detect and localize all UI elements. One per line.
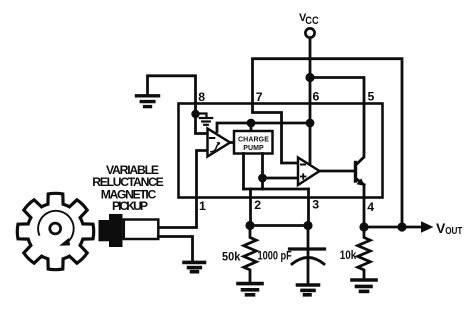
wire charge pump supply tap <box>250 123 253 131</box>
comparator U1A input stage <box>208 129 231 157</box>
node VOUT label <box>436 220 463 237</box>
wire emitter to pin 4 <box>363 185 366 227</box>
svg-text:CHARGE: CHARGE <box>238 136 269 143</box>
arrow VOUT <box>421 221 434 232</box>
wire pin 3 lead <box>307 189 310 226</box>
ground G3 under R1 <box>238 284 262 295</box>
wire charge pump right output <box>261 154 264 190</box>
gear wheel <box>17 193 93 269</box>
wire top rail pin7 to VOUT rail <box>253 59 403 227</box>
wire VOUT <box>364 226 421 229</box>
ground G1 top-left <box>137 96 159 107</box>
label variable reluctance magnetic pickup <box>92 163 164 213</box>
svg-text:OUT: OUT <box>445 225 463 237</box>
node dot pin6 rail <box>306 119 315 128</box>
svg-text:CC: CC <box>305 15 318 27</box>
transistor Q1 <box>354 163 357 182</box>
wire internal bottom rail <box>244 188 309 191</box>
node dot pump output to op-amp <box>258 174 267 183</box>
wire pin8 internal to comparator inverting input <box>196 104 208 134</box>
node dot pin 3 <box>303 221 312 230</box>
svg-text:PUMP: PUMP <box>243 145 264 152</box>
wire pin1 to comparator non-inverting input <box>160 151 208 228</box>
svg-text:5: 5 <box>368 90 375 104</box>
ground internal reference <box>196 114 213 125</box>
resistor R1 50k <box>244 226 257 282</box>
charge pump block U1B <box>234 131 273 154</box>
svg-text:7: 7 <box>256 90 263 104</box>
wire comparator output to charge pump <box>230 141 234 144</box>
svg-text:10k: 10k <box>340 248 357 262</box>
node dot VOUT rail <box>397 222 406 231</box>
wire pickup to ground <box>158 237 192 261</box>
svg-text:6: 6 <box>313 90 320 104</box>
svg-text:1: 1 <box>199 199 206 213</box>
svg-text:1000 pF: 1000 pF <box>258 248 292 262</box>
capacitor C1 <box>307 226 310 284</box>
svg-text:2: 2 <box>254 198 261 212</box>
VCC terminal circle <box>305 28 314 37</box>
svg-text:50k: 50k <box>222 250 241 264</box>
ground G5 under R2 <box>352 280 376 291</box>
wire pump output to op-amp non-inverting input <box>263 177 299 180</box>
wire VCC down to junction <box>309 38 312 78</box>
hysteresis symbol inside comparator <box>211 142 220 152</box>
node junction VCC dot <box>305 73 314 82</box>
node dot pin 4 / VOUT <box>359 222 368 231</box>
wire pin6 VCC down to op-amp supply <box>309 78 312 166</box>
node pin8 internal dot <box>191 110 199 118</box>
gear hub hole <box>50 223 61 234</box>
wire op-amp output to transistor base <box>320 170 355 173</box>
node VCC label <box>299 12 319 27</box>
wire pin8 to ground <box>148 76 196 104</box>
op-amp U1 IC outline box <box>179 104 383 198</box>
svg-text:8: 8 <box>198 90 205 104</box>
svg-text:3: 3 <box>312 198 319 212</box>
node dot pin 2 <box>245 221 254 230</box>
resistor R2 10k <box>358 227 371 278</box>
ground G4 under C1 <box>298 285 319 295</box>
pickup coil body <box>124 220 159 240</box>
svg-text:PICKUP: PICKUP <box>112 199 148 213</box>
pickup probe tip <box>99 220 110 241</box>
rotation arrow inside gear <box>38 211 74 242</box>
wire internal VCC rail <box>217 123 310 132</box>
wire charge pump left output to pin2 <box>242 154 245 190</box>
svg-text:4: 4 <box>367 200 374 214</box>
wire pin7 to op-amp inverting input <box>253 104 299 164</box>
wire pin2-pin3 node rail <box>250 224 308 227</box>
ground G2 under pickup <box>184 262 205 271</box>
wire pin 2 lead <box>249 189 252 226</box>
node dot charge pump supply <box>247 119 256 128</box>
pickup probe body block <box>109 214 123 247</box>
op-amp U1C output stage <box>298 158 320 186</box>
wire VCC to pin5 collector <box>310 78 364 165</box>
